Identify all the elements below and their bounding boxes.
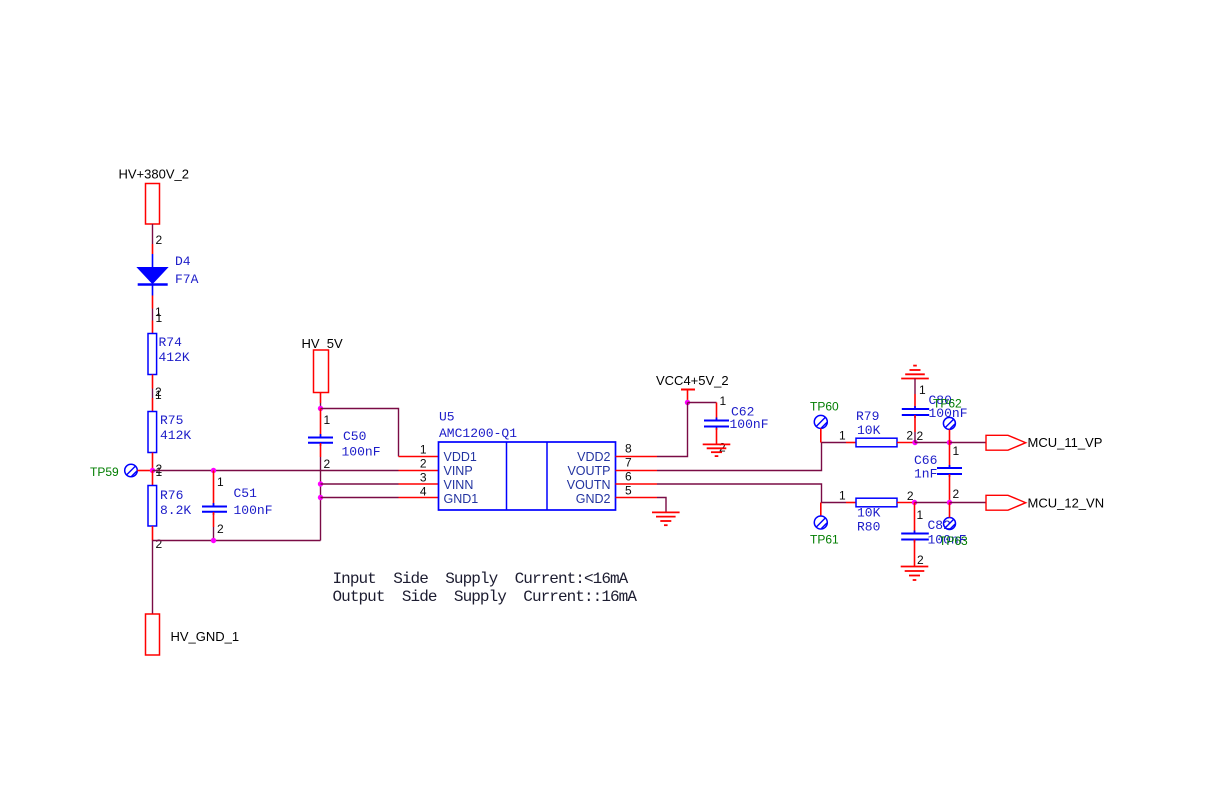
svg-text:VDD1: VDD1: [444, 450, 477, 464]
wire to C66 node: [915, 442, 950, 444]
testpoint TP59: [125, 464, 138, 477]
wire to C66 bottom node: [915, 502, 950, 504]
svg-text:100nF: 100nF: [929, 406, 968, 421]
junction C82 node: [912, 500, 917, 505]
junction C51 top: [211, 468, 216, 473]
ground (C82): [901, 566, 929, 568]
svg-text:1: 1: [839, 429, 846, 443]
svg-text:HV+380V_2: HV+380V_2: [119, 167, 189, 182]
svg-text:1: 1: [156, 311, 163, 325]
svg-text:Input Side Supply Current:<: Input Side Supply Current:<16mA: [333, 570, 629, 588]
svg-text:C51: C51: [234, 486, 258, 501]
testpoint TP61: [814, 516, 827, 529]
pin 1 stub (VDD1): [399, 456, 439, 458]
capacitor C51: [213, 471, 215, 507]
resistor R74: [148, 334, 157, 375]
svg-text:VOUTN: VOUTN: [567, 478, 611, 492]
svg-text:8: 8: [625, 442, 632, 456]
testpoint TP60: [814, 415, 827, 428]
pin stub R74 bottom (red): [152, 375, 154, 389]
svg-text:TP59: TP59: [90, 465, 119, 479]
svg-text:D4: D4: [175, 254, 191, 269]
junction GND1 tap: [318, 495, 323, 500]
ground (C80, inverted): [913, 365, 917, 367]
capacitor C62: [716, 403, 718, 421]
junction C80 node: [912, 440, 917, 445]
svg-text:C50: C50: [343, 429, 366, 444]
svg-text:R79: R79: [856, 409, 879, 424]
pin stub TP62 (red): [949, 429, 951, 442]
svg-text:MCU_11_VP: MCU_11_VP: [1028, 435, 1103, 450]
svg-text:10K: 10K: [857, 423, 881, 438]
pin stub R76 top (red): [152, 471, 154, 486]
pin stub R80 right (red): [897, 502, 915, 504]
port MCU_12_VN: [986, 495, 1026, 510]
wire C80 to node: [914, 432, 916, 443]
svg-text:1: 1: [720, 394, 727, 408]
svg-text:2: 2: [953, 487, 960, 501]
pin 5 stub (GND2): [616, 497, 658, 499]
svg-text:2: 2: [156, 233, 163, 247]
pin stub R79 left (red): [846, 442, 856, 444]
wire C50 bottom down to GND1 rail: [320, 457, 322, 541]
pin stub R80 left (red): [846, 502, 856, 504]
port MCU_11_VP: [986, 435, 1026, 450]
ground (C62): [703, 443, 731, 445]
op-amp U5 body: [439, 442, 616, 510]
svg-text:412K: 412K: [159, 350, 190, 365]
pin 4 stub (GND1): [399, 497, 439, 499]
svg-text:VDD2: VDD2: [577, 450, 610, 464]
wire to MCU_11_VP port: [950, 442, 987, 444]
svg-text:2: 2: [917, 429, 924, 443]
wire R74-R75: [152, 389, 154, 399]
capacitor C50: [320, 409, 322, 437]
svg-text:R74: R74: [159, 335, 183, 350]
junction VINN tap: [318, 481, 323, 486]
svg-text:2: 2: [217, 522, 224, 536]
junction node A (TP59 node): [150, 468, 155, 473]
resistor R75: [148, 412, 157, 453]
pin stub TP59 (red): [137, 470, 152, 472]
wire D4 to R74: [152, 309, 154, 321]
svg-text:VINN: VINN: [444, 478, 474, 492]
port HV_5V: [314, 350, 329, 393]
svg-text:6: 6: [625, 470, 632, 484]
wire GND2 to ground: [657, 498, 666, 513]
wire VINP net (TP59 node to U5 pin2): [153, 470, 399, 472]
svg-text:MCU_12_VN: MCU_12_VN: [1028, 496, 1105, 511]
wire VOUTP to R79: [657, 443, 846, 471]
svg-text:8.2K: 8.2K: [160, 503, 191, 518]
svg-text:GND1: GND1: [444, 492, 479, 506]
svg-text:F7A: F7A: [175, 272, 199, 287]
svg-text:HV_5V: HV_5V: [302, 336, 344, 351]
svg-text:100nF: 100nF: [730, 417, 769, 432]
svg-text:HV_GND_1: HV_GND_1: [171, 629, 240, 644]
wire to junction: [320, 403, 322, 409]
pin 7 stub (VOUTP): [616, 470, 658, 472]
power symbol VCC4+5V_2: [681, 389, 695, 391]
svg-text:100nF: 100nF: [234, 503, 273, 518]
svg-text:1: 1: [839, 489, 846, 503]
svg-text:TP63: TP63: [939, 534, 968, 548]
pin stub TP61 (red): [820, 503, 822, 517]
svg-text:2: 2: [420, 457, 427, 471]
wire GND1 bottom rail: [153, 540, 321, 542]
svg-text:3: 3: [420, 471, 427, 485]
wire VCC to U5 VDD2: [657, 403, 688, 457]
pin 8 stub (VDD2): [616, 456, 658, 458]
pin stub D4 bottom (red): [152, 296, 154, 309]
resistor R76: [148, 486, 157, 527]
svg-text:1nF: 1nF: [914, 467, 937, 482]
svg-text:VINP: VINP: [444, 464, 473, 478]
pin stub R75 top (red): [152, 398, 154, 412]
svg-text:2: 2: [156, 537, 163, 551]
ground (GND2): [652, 511, 680, 513]
testpoint TP62: [943, 417, 955, 429]
svg-text:VCC4+5V_2: VCC4+5V_2: [656, 373, 729, 388]
svg-text:1: 1: [324, 413, 331, 427]
diode D4 top lead (blue): [152, 254, 154, 268]
junction C51 bottom: [211, 538, 216, 543]
wire GND1 net: [321, 497, 399, 499]
svg-text:1: 1: [953, 444, 960, 458]
pin stub port-diode (red): [152, 244, 154, 254]
svg-text:10K: 10K: [857, 506, 881, 521]
junction C66 bottom node: [947, 500, 952, 505]
svg-text:AMC1200-Q1: AMC1200-Q1: [439, 426, 517, 441]
wire VINN net: [321, 483, 399, 485]
svg-text:1: 1: [156, 465, 163, 479]
resistor R80: [856, 498, 897, 507]
port HV+380V_2: [146, 184, 160, 225]
capacitor C66: [949, 443, 951, 468]
pin stub R76 bottom (red): [152, 526, 154, 541]
wire VOUTN to R80: [657, 484, 846, 503]
svg-text:1: 1: [917, 508, 924, 522]
wire gnd to C80: [914, 379, 916, 395]
pin 3 stub (VINN): [399, 483, 439, 485]
svg-text:100nF: 100nF: [342, 445, 381, 460]
pin stub R79 right (red): [897, 442, 915, 444]
svg-text:2: 2: [324, 457, 331, 471]
svg-text:1: 1: [420, 443, 427, 457]
svg-text:R80: R80: [857, 520, 880, 535]
pin stub TP63 (red): [949, 503, 951, 518]
wire HV_5V to U5 VDD1: [321, 409, 399, 457]
svg-text:2: 2: [906, 429, 913, 443]
svg-text:TP61: TP61: [810, 533, 839, 547]
capacitor C80: [914, 394, 916, 409]
wire to MCU_12_VN port: [950, 502, 987, 504]
pin stub C82 top (red): [914, 503, 916, 534]
svg-text:TP60: TP60: [810, 400, 839, 414]
junction VCC node: [685, 400, 690, 405]
wire C51 bottom to rail: [213, 527, 215, 541]
junction C66 top node: [947, 440, 952, 445]
wire VCC to C62: [688, 402, 717, 404]
svg-text:7: 7: [625, 456, 632, 470]
svg-text:1: 1: [919, 383, 926, 397]
svg-text:4: 4: [420, 485, 427, 499]
svg-text:VOUTP: VOUTP: [567, 464, 610, 478]
svg-text:Output Side Supply Current:: Output Side Supply Current::16mA: [333, 588, 638, 606]
svg-text:412K: 412K: [160, 428, 191, 443]
junction HV_5V node: [318, 406, 323, 411]
svg-text:1: 1: [155, 388, 162, 402]
resistor R79: [856, 438, 897, 447]
svg-text:1: 1: [217, 475, 224, 489]
pin stub R74 top (red): [152, 321, 154, 334]
testpoint TP63: [944, 518, 956, 530]
pin stub HV_5V port (red): [320, 393, 322, 404]
port HV_GND_1: [146, 614, 160, 655]
diode D4: [138, 268, 168, 284]
svg-text:GND2: GND2: [576, 492, 611, 506]
pin stub C62 bottom (red): [716, 428, 718, 444]
svg-text:R76: R76: [160, 488, 183, 503]
svg-text:U5: U5: [439, 410, 455, 425]
svg-text:2: 2: [917, 553, 924, 567]
pin stub R75 bottom (red): [152, 453, 154, 471]
svg-text:5: 5: [625, 484, 632, 498]
capacitor C82: [914, 531, 916, 534]
wire node to HV_GND port: [152, 541, 154, 615]
pin stub TP60 (red): [820, 428, 822, 442]
svg-text:R75: R75: [160, 413, 183, 428]
wire port to D4: [152, 224, 154, 244]
pin 6 stub (VOUTN): [616, 483, 658, 485]
pin 2 stub (VINP): [399, 470, 439, 472]
